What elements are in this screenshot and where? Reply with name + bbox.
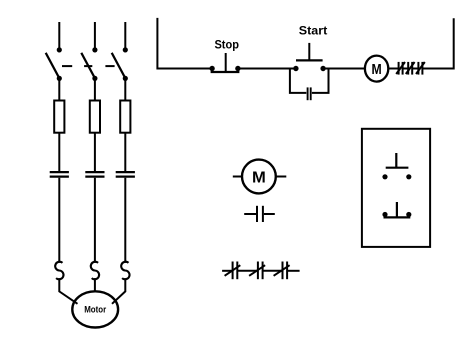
wire L3 to fuse — [124, 80, 126, 101]
box NO pushbutton left node — [382, 174, 387, 179]
wire between OL contacts — [403, 68, 408, 70]
wire L3 fuse to contact — [124, 133, 126, 172]
wire L2 to motor — [94, 278, 96, 292]
coil M — [365, 56, 388, 82]
overload heater OL2 — [91, 262, 99, 280]
contactor contact M-2 — [85, 172, 104, 177]
wire L3 contact to overload — [124, 178, 126, 263]
wire holding branch left — [290, 69, 306, 93]
svg-text:M: M — [252, 169, 266, 186]
box NO pushbutton right node — [406, 174, 411, 179]
wire L1 fuse to contact — [58, 133, 60, 172]
node start left — [293, 66, 298, 71]
node L2 upper terminal — [92, 47, 97, 52]
fuse F3 — [120, 101, 130, 133]
wire stop to start — [238, 68, 296, 70]
wire L2 contact to overload — [94, 178, 96, 263]
contactor contact M-3 — [116, 172, 135, 177]
node L1 upper terminal — [57, 47, 62, 52]
wire L1 supply stub — [58, 22, 60, 48]
box NO pushbutton stem — [395, 153, 397, 168]
node stop left — [209, 66, 214, 71]
overload contact OL-c — [416, 62, 425, 75]
svg-text:Stop: Stop — [214, 38, 239, 52]
legend OL contact 3 — [274, 262, 290, 280]
svg-text:Start: Start — [299, 23, 328, 37]
motor M — [72, 291, 118, 327]
wire L2 fuse to contact — [94, 133, 96, 172]
fuse F1 — [54, 101, 64, 133]
legend OL wire a — [222, 270, 232, 272]
switch gang dashed link — [62, 65, 115, 67]
wire L3 to motor — [112, 278, 125, 304]
wire control right rail — [423, 18, 454, 68]
disconnect switch blade S3 — [112, 53, 126, 78]
svg-text:M: M — [372, 62, 382, 78]
wire start to coil — [323, 68, 365, 70]
wire L2 supply stub — [94, 22, 96, 48]
legend OL wire d — [287, 270, 299, 272]
box NC pushbutton bar — [384, 216, 411, 218]
pushbutton Stop actuator stem — [225, 53, 227, 72]
wire L2 to fuse — [94, 80, 96, 101]
legend OL contact 2 — [249, 262, 265, 280]
wire L1 to fuse — [58, 80, 60, 101]
legend motor right stub — [276, 176, 287, 178]
legend OL wire b — [238, 270, 258, 272]
pushbutton Stop NC bar — [211, 71, 240, 73]
wire coil to OL contacts — [388, 68, 398, 70]
legend motor left stub — [233, 176, 242, 178]
overload contact OL-b — [406, 62, 415, 75]
wire control left rail — [157, 18, 212, 69]
wire L3 supply stub — [124, 22, 126, 48]
box NC pushbutton right node — [406, 212, 411, 217]
node L3 lower terminal — [123, 76, 128, 81]
node L1 lower terminal — [57, 76, 62, 81]
box NC pushbutton left node — [382, 212, 387, 217]
disconnect switch blade S1 — [46, 53, 60, 78]
wire L1 to motor — [59, 278, 77, 304]
wire holding branch right — [312, 69, 329, 93]
legend NO contact right stub — [264, 213, 275, 215]
fuse F2 — [90, 101, 100, 133]
legend NO contact left stub — [244, 213, 256, 215]
node L3 upper terminal — [123, 47, 128, 52]
box NC pushbutton stem — [396, 202, 398, 217]
overload contact OL-a — [396, 62, 405, 75]
node stop right — [235, 66, 240, 71]
node L2 lower terminal — [92, 76, 97, 81]
disconnect switch blade S2 — [81, 53, 95, 78]
holding contact M plates — [308, 87, 311, 100]
wire L1 contact to overload — [58, 178, 60, 263]
overload heater OL3 — [121, 262, 129, 280]
overload heater OL1 — [55, 262, 63, 280]
pushbutton Start actuator stem — [308, 43, 310, 61]
box NO pushbutton bar — [386, 167, 409, 169]
wire between OL contacts 2 — [412, 68, 418, 70]
legend OL wire c — [263, 270, 283, 272]
legend box — [362, 129, 430, 247]
svg-text:Motor: Motor — [84, 304, 107, 314]
contactor contact M-1 — [50, 172, 69, 177]
legend OL contact 1 — [225, 262, 241, 280]
pushbutton Start NO bar — [296, 59, 323, 61]
legend NO contact plates — [257, 206, 263, 222]
legend motor symbol circle — [242, 160, 276, 194]
node start right — [320, 66, 325, 71]
